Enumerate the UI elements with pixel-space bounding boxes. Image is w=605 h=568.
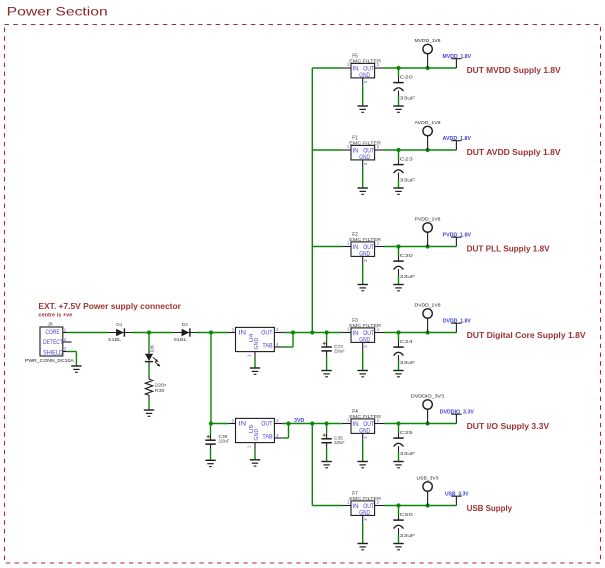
junction at C72 [325,330,329,334]
wire shield to ground [67,352,76,367]
svg-text:centre is +ve: centre is +ve [38,313,72,319]
svg-text:GND: GND [254,429,260,441]
svg-text:PVDD_1V8: PVDD_1V8 [415,216,441,221]
svg-text:3: 3 [363,80,368,83]
svg-text:DUT AVDD Supply 1.8V: DUT AVDD Supply 1.8V [467,148,562,157]
EMC filter F3 [343,318,385,370]
svg-text:3: 3 [363,345,368,348]
svg-text:3: 3 [363,259,368,262]
svg-text:OUT: OUT [261,421,272,427]
net label DVDD_1.8V [443,318,471,332]
junction at port [426,148,430,152]
capacitor C30 33uF [393,247,415,285]
wire D2 to U4 [197,332,229,334]
wire D1 to D2 [132,332,174,334]
wire U4 OUT to F3 [282,332,343,334]
voltage regulator U4 [229,327,282,368]
svg-text:PVDD_1.8V: PVDD_1.8V [443,232,472,238]
ground under C24 [393,371,403,377]
EMC filter F5 [343,54,385,106]
EMC filter F1 [343,136,385,188]
svg-text:3: 3 [232,327,235,332]
svg-text:IN: IN [239,421,247,427]
wire to U5 input [210,333,212,424]
svg-text:PWR_CONN_DC10A: PWR_CONN_DC10A [25,358,75,364]
capacitor C25 33uF [393,424,415,462]
svg-text:MVDD_1V8: MVDD_1V8 [415,38,441,43]
capacitor C20 33uF [393,68,415,106]
svg-text:MVDD_1.8V: MVDD_1.8V [443,54,472,60]
svg-text:C25: C25 [400,430,413,436]
net label PVDD_1.8V [443,232,472,246]
svg-text:DVDDIO_3.3V: DVDDIO_3.3V [440,409,475,415]
wire bus to F2 [312,246,342,248]
svg-text:OUT: OUT [261,330,272,336]
svg-text:USB_3.3V: USB_3.3V [445,491,469,497]
wire F2 output [384,246,456,248]
svg-text:AVDD_1.8V: AVDD_1.8V [443,136,472,142]
junction at C50 [396,503,400,507]
ground under C38 [205,460,215,466]
wire to LED D6 [148,333,150,350]
svg-text:GND: GND [359,250,370,257]
ground under C50 [393,544,403,550]
junction at C23 [396,148,400,152]
ground under C23 [393,188,403,194]
power port USB_3V3 [417,475,439,505]
net label MVDD_1.8V [443,54,472,68]
svg-text:S1BL: S1BL [173,337,187,343]
ground under U4 [250,368,260,374]
svg-text:33uF: 33uF [400,533,416,539]
svg-text:USB Supply: USB Supply [467,504,513,513]
svg-text:GND: GND [359,336,370,343]
wire U5 OUT to F4 [282,423,343,425]
svg-text:TAB: TAB [262,434,272,440]
junction at C20 [396,66,400,70]
wire F3 output [384,332,456,334]
wire 1.8V bus vertical [311,68,313,333]
wire J8 to D1 [68,332,109,334]
power port DVDDIO_3V3 [411,393,445,423]
svg-text:J8: J8 [48,322,53,328]
junction to 3.3V regulator branch [209,330,213,334]
svg-text:3: 3 [363,436,368,439]
svg-text:220uF: 220uF [334,440,345,446]
svg-text:IN: IN [352,148,359,155]
ground under U5 [250,460,260,466]
svg-text:4: 4 [276,342,279,347]
svg-text:220uF: 220uF [219,438,230,444]
svg-text:33uF: 33uF [400,451,416,457]
svg-text:Power Section: Power Section [7,5,108,19]
svg-text:33uF: 33uF [400,177,416,183]
wire F7 output [384,505,456,507]
diode D1 S1BL [108,322,132,343]
ground under C25 [393,462,403,468]
ground under F1 [358,188,368,194]
svg-text:3: 3 [232,418,235,423]
svg-text:C30: C30 [400,253,413,259]
svg-text:1: 1 [246,445,251,448]
svg-text:D6: D6 [150,345,156,353]
wire F1 output [384,149,456,151]
svg-text:SHIELD: SHIELD [43,351,63,357]
net label USB_3.3V [445,491,469,505]
capacitor C72 220uF [321,333,344,371]
capacitor C50 33uF [393,506,415,544]
svg-text:33uF: 33uF [400,274,416,280]
wire R38 to ground [148,399,150,410]
svg-text:TAB: TAB [262,343,272,349]
junction at C30 [396,244,400,248]
junction U4 TAB loop [291,330,295,334]
svg-text:R38: R38 [155,388,165,394]
net label AVDD_1.8V [443,136,472,150]
EMC filter F2 [343,232,385,284]
junction U5 TAB loop [286,421,290,425]
junction at port [426,421,430,425]
svg-text:2: 2 [276,327,279,332]
wire bus to F7 [312,505,342,507]
svg-text:C50: C50 [400,512,413,518]
svg-text:CORE: CORE [45,330,59,336]
junction at U5 input [209,421,213,425]
svg-text:IN: IN [352,244,359,251]
svg-text:220r: 220r [155,382,167,388]
ground under R38 [144,410,154,416]
wire LED to R38 [148,366,150,377]
capacitor C38 220uF [205,424,229,461]
svg-text:EXT. +7.5V Power supply connec: EXT. +7.5V Power supply connector [38,302,181,311]
EMC filter F7 [343,491,385,543]
junction at C24 [396,330,400,334]
ground under C30 [393,285,403,291]
capacitor C24 33uF [393,333,415,371]
junction 1V8 bus [310,330,314,334]
capacitor C23 33uF [393,150,415,188]
capacitor C35 220uF [321,424,344,462]
junction at C25 [396,421,400,425]
svg-text:GND: GND [359,154,370,161]
svg-text:33uF: 33uF [400,360,416,366]
junction 3VD bus [310,421,314,425]
svg-text:AVDD_1V8: AVDD_1V8 [415,120,441,125]
svg-text:D1: D1 [116,322,122,328]
ground under F5 [358,106,368,112]
junction at port [426,330,430,334]
wire TAB loop U4 [282,333,293,348]
ground under C35 [321,462,331,468]
ground at J8 shield [71,366,81,372]
svg-text:DUT MVDD Supply 1.8V: DUT MVDD Supply 1.8V [467,66,562,75]
svg-text:DVDDIO_3V3: DVDDIO_3V3 [411,393,445,398]
net label DVDDIO_3.3V [440,409,475,423]
svg-text:3: 3 [363,162,368,165]
wire to U5 IN [211,423,229,425]
wire bus to F1 [312,149,342,151]
resistor R38 220r [145,377,166,400]
power port PVDD_1V8 [415,216,441,246]
svg-text:3: 3 [363,518,368,521]
svg-text:GND: GND [359,509,370,516]
EMC filter F4 [343,409,385,461]
svg-text:DUT PLL Supply 1.8V: DUT PLL Supply 1.8V [467,245,551,254]
svg-text:GND: GND [359,72,370,79]
svg-text:DVDD_1.8V: DVDD_1.8V [443,318,471,324]
ground under F4 [358,462,368,468]
wire 3.3V bus vertical [311,424,313,506]
svg-text:C24: C24 [400,339,413,345]
svg-text:GND: GND [359,427,370,434]
svg-text:IN: IN [352,421,359,428]
junction at port [426,66,430,70]
wire bus to F5 [312,67,342,69]
ground under C20 [393,106,403,112]
svg-text:IN: IN [239,330,247,336]
wire F5 output [384,67,456,69]
svg-text:4: 4 [276,433,279,438]
svg-text:USB_3V3: USB_3V3 [417,475,439,480]
svg-text:GND: GND [254,338,260,350]
svg-text:C20: C20 [400,74,413,80]
LED D6 [145,345,160,367]
diode D2 S1BL [173,322,197,343]
svg-text:IN: IN [352,503,359,510]
svg-text:33uF: 33uF [400,95,416,101]
svg-text:IN: IN [352,66,359,73]
svg-text:DUT I/O Supply 3.3V: DUT I/O Supply 3.3V [467,422,550,431]
connector J8 PWR_CONN_DC10A [25,322,75,365]
svg-text:IN: IN [352,330,359,337]
wire TAB loop U5 [282,424,289,439]
ground under F3 [358,371,368,377]
pin 2 stub [63,341,72,343]
power port DVDD_1V8 [415,302,441,332]
svg-text:1: 1 [246,354,251,357]
svg-text:2: 2 [276,418,279,423]
ground under C72 [321,371,331,377]
junction at C35 [325,421,329,425]
wire F4 output [384,423,456,425]
junction at LED branch [147,330,151,334]
junction at port [426,244,430,248]
svg-text:DVDD_1V8: DVDD_1V8 [415,302,441,307]
svg-text:S1BL: S1BL [108,337,122,343]
svg-text:220uF: 220uF [334,348,345,354]
svg-text:DETECT: DETECT [43,340,63,346]
svg-text:D2: D2 [182,322,188,328]
power port MVDD_1V8 [415,38,441,68]
power port AVDD_1V8 [415,120,441,150]
ground under F2 [358,285,368,291]
svg-text:C23: C23 [400,156,413,162]
voltage regulator U5 [229,418,282,460]
svg-text:3VD: 3VD [294,418,304,424]
svg-text:DUT Digital Core Supply 1.8V: DUT Digital Core Supply 1.8V [467,331,587,340]
junction at port [426,503,430,507]
ground under F7 [358,544,368,550]
